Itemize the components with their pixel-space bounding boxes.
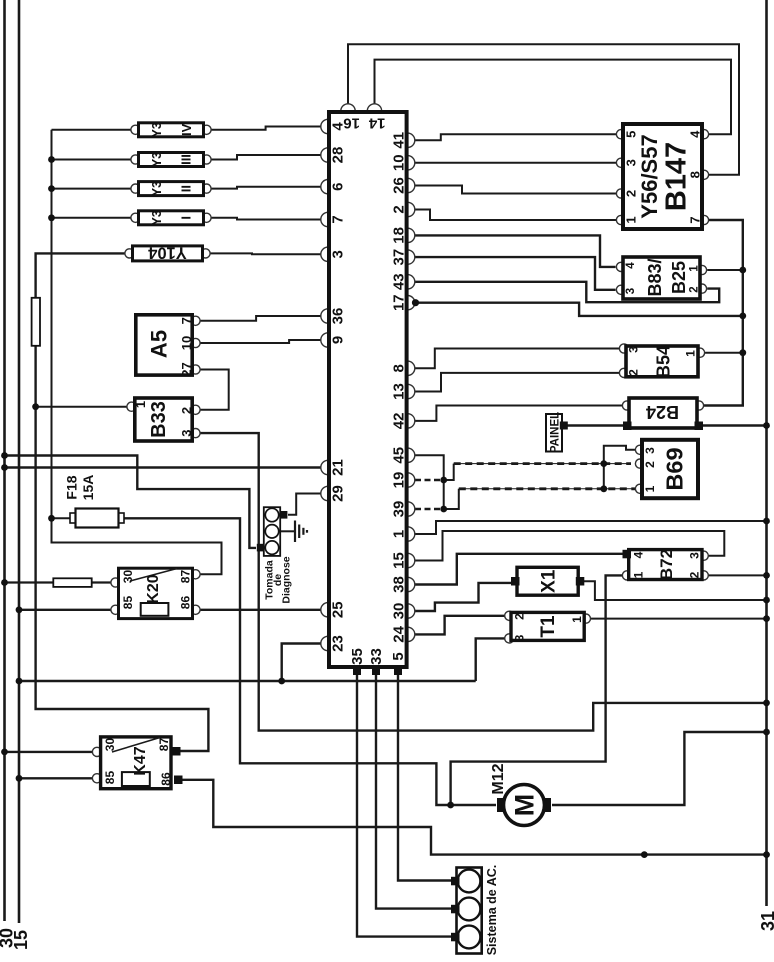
- svg-text:23: 23: [330, 635, 347, 652]
- wire A5 pin7 to pin 36: [200, 316, 321, 321]
- svg-text:87: 87: [179, 570, 193, 584]
- relay K47: [92, 737, 182, 789]
- wire pin 42 to B24 left: [415, 406, 623, 421]
- wire pin 19 dashed stub: [415, 479, 444, 482]
- junction dots node column B147-B54: [739, 267, 746, 274]
- svg-text:38: 38: [391, 576, 408, 593]
- sensor B24: [622, 398, 703, 430]
- sensor B54: [619, 344, 704, 378]
- wire Tomada mid to ground: [281, 530, 294, 532]
- svg-text:III: III: [179, 154, 194, 165]
- svg-text:IV: IV: [179, 123, 194, 136]
- wire Y104 to pin 3: [206, 252, 321, 255]
- svg-text:4: 4: [688, 130, 703, 138]
- svg-text:II: II: [179, 185, 194, 192]
- wire pin 10 to B147 pin3: [415, 162, 617, 164]
- wire B54 pin1 to node: [705, 352, 743, 354]
- wire rail30 to Tomada bottom: [5, 456, 257, 548]
- wire B33 pin3 to rail 31: [200, 433, 766, 730]
- valve Y104: [125, 244, 210, 262]
- svg-text:I: I: [179, 216, 194, 220]
- wire pin 30 to X1: [415, 583, 511, 611]
- svg-text:3: 3: [179, 429, 194, 436]
- svg-text:10: 10: [179, 336, 194, 350]
- wire bus to K20 pin87: [52, 130, 222, 575]
- svg-text:B69: B69: [662, 447, 688, 490]
- svg-text:85: 85: [121, 596, 135, 610]
- wire pin 35 to AC connector: [357, 675, 451, 937]
- relay K20: [111, 568, 200, 618]
- svg-text:3: 3: [513, 634, 527, 641]
- junction dot pin 23 net: [278, 678, 285, 685]
- sensor B69: [635, 440, 698, 498]
- svg-text:1: 1: [689, 265, 701, 272]
- svg-text:2: 2: [689, 286, 701, 292]
- motor M12: [490, 763, 551, 825]
- svg-text:39: 39: [391, 501, 408, 518]
- connector Sistema de AC: [451, 865, 499, 956]
- svg-text:29: 29: [330, 485, 347, 502]
- svg-text:X1: X1: [539, 569, 560, 593]
- valve Y3 II: [131, 181, 211, 196]
- svg-text:2: 2: [391, 205, 408, 213]
- svg-text:27: 27: [179, 362, 194, 376]
- wire T1 pin1 to rail 31: [590, 618, 766, 620]
- connector X1: [511, 567, 584, 595]
- wire Y3-II left: [52, 188, 136, 190]
- svg-text:19: 19: [391, 472, 408, 489]
- svg-text:30: 30: [121, 570, 135, 584]
- svg-text:18: 18: [391, 227, 408, 244]
- svg-text:2: 2: [513, 613, 527, 620]
- svg-text:30: 30: [103, 738, 117, 752]
- svg-text:6: 6: [330, 183, 347, 191]
- svg-text:30: 30: [391, 603, 408, 620]
- wire rail30 to K20 pin30 via resistor: [5, 581, 112, 583]
- sensor B83/B25: [616, 257, 706, 299]
- svg-text:10: 10: [391, 154, 408, 171]
- svg-text:24: 24: [391, 625, 408, 642]
- svg-text:K20: K20: [145, 574, 162, 603]
- wire PAINEL to B24: [568, 424, 624, 427]
- svg-text:K47: K47: [132, 746, 149, 775]
- label PAINEL: [546, 412, 568, 453]
- svg-text:45: 45: [391, 447, 408, 464]
- svg-text:43: 43: [391, 273, 408, 290]
- inline fuse on Y104 branch: [32, 298, 40, 346]
- svg-text:T1: T1: [538, 615, 559, 638]
- wire pin 41 to B147 pin5: [415, 134, 617, 140]
- svg-text:87: 87: [157, 738, 171, 752]
- svg-text:17: 17: [391, 294, 408, 311]
- wire pin 37 to B83 pin3: [415, 257, 616, 290]
- wire pin 33 to AC connector: [376, 675, 451, 909]
- junction dot node B33 pin1: [32, 403, 39, 410]
- svg-text:33: 33: [368, 648, 385, 665]
- svg-text:13: 13: [391, 383, 408, 400]
- wire pin 23 down: [282, 644, 321, 682]
- wire pin 39 dashed stub: [415, 508, 444, 511]
- svg-text:B24: B24: [646, 402, 679, 422]
- wire node jog to dashed line 1: [444, 464, 454, 480]
- svg-text:1: 1: [632, 571, 646, 578]
- svg-text:PAINEL: PAINEL: [550, 412, 562, 453]
- wire F18 to M12 left: [124, 518, 496, 805]
- wire pin 5 to AC connector: [398, 675, 451, 881]
- inline resistor on K20 feed: [53, 578, 91, 587]
- wire rail30 to K47 pin30: [5, 751, 93, 753]
- svg-text:37: 37: [391, 249, 408, 266]
- svg-text:7: 7: [179, 317, 194, 324]
- svg-text:42: 42: [391, 413, 408, 430]
- svg-text:B54: B54: [654, 345, 674, 378]
- svg-text:Sistema de AC.: Sistema de AC.: [485, 865, 499, 956]
- wire bus to fuse F18: [52, 517, 74, 519]
- svg-text:Y56/S57: Y56/S57: [637, 134, 662, 218]
- svg-text:36: 36: [330, 308, 347, 325]
- wire rail15 to K20 pin85: [19, 609, 111, 611]
- svg-text:3: 3: [330, 250, 347, 258]
- svg-text:B25: B25: [669, 261, 689, 294]
- wire Y3-IV to pin 4: [207, 127, 321, 130]
- svg-text:M: M: [510, 794, 540, 817]
- svg-text:1: 1: [133, 401, 148, 408]
- svg-text:26: 26: [391, 177, 408, 194]
- relay unit Y56/S57 B147: [616, 124, 708, 229]
- svg-text:86: 86: [159, 772, 173, 786]
- wire pin 43 to B25 pin2: [415, 282, 719, 302]
- control module A5: [136, 315, 200, 377]
- wire K47 pin86 to rail 31: [183, 780, 767, 855]
- wire pin 26 to B147 pin2: [415, 186, 617, 194]
- junction dots rail 30: [1, 452, 8, 459]
- svg-text:2: 2: [643, 461, 657, 468]
- svg-text:41: 41: [391, 132, 408, 149]
- ground symbol: [295, 521, 307, 543]
- wire B33 pin1 to node: [36, 406, 127, 408]
- wire Tomada top to pin 29: [288, 494, 321, 515]
- wire pin 1 to rail 31: [415, 521, 767, 534]
- wire B147 pin7 to B24 right: [704, 220, 743, 406]
- wire pin 45 down: [415, 455, 444, 509]
- ECU control unit box: [321, 104, 415, 675]
- svg-text:31: 31: [758, 911, 774, 931]
- svg-text:1: 1: [570, 616, 584, 623]
- wire rail 15: [18, 0, 21, 923]
- diagnostic socket Tomada de Diagnose: [257, 507, 293, 603]
- valve Y3 IV: [131, 122, 211, 137]
- svg-text:4: 4: [632, 551, 646, 558]
- svg-text:Y3: Y3: [150, 210, 164, 225]
- wire pin 38 to B72 pin4: [415, 554, 623, 585]
- svg-text:F18: F18: [64, 475, 80, 499]
- wire pin 2 to B147 pin1: [415, 210, 617, 221]
- fuse F18 15A: [64, 475, 125, 528]
- wire rail30 to pin 21: [5, 466, 321, 468]
- wire Y104 left via inline fuse to K47 pin87: [36, 253, 209, 751]
- svg-text:Y104: Y104: [147, 244, 186, 262]
- svg-text:15A: 15A: [80, 475, 96, 501]
- svg-text:5: 5: [390, 652, 407, 660]
- svg-text:1: 1: [643, 485, 657, 492]
- svg-text:2: 2: [688, 571, 702, 578]
- wire pin 8 to B54 pin3: [415, 349, 620, 369]
- svg-text:3: 3: [643, 447, 657, 454]
- svg-text:28: 28: [330, 147, 347, 164]
- wire rail15 ground run: [19, 680, 476, 682]
- wire A5 pin10 to pin 9: [200, 340, 321, 343]
- wire dashed line to B69 pin1: [459, 488, 636, 490]
- wire pin 15 to B72 pin3: [415, 531, 724, 561]
- svg-text:25: 25: [330, 601, 347, 618]
- svg-text:85: 85: [103, 771, 117, 785]
- wire B72 pin1 to M12 node: [451, 575, 623, 805]
- svg-text:B83/: B83/: [645, 258, 665, 296]
- svg-text:B33: B33: [148, 401, 170, 438]
- wire rail 31: [765, 0, 768, 906]
- svg-text:Y3: Y3: [150, 181, 164, 196]
- junction dots Y3 bus: [48, 156, 55, 163]
- valve Y3 III: [131, 152, 211, 167]
- wire pin 16 to B147 pin8: [348, 44, 739, 175]
- svg-text:7: 7: [330, 215, 347, 223]
- svg-text:7: 7: [688, 216, 703, 223]
- svg-text:1: 1: [684, 350, 698, 357]
- wire T1 pin3: [476, 638, 505, 681]
- wire M12 right to rail 31: [552, 732, 767, 805]
- svg-text:2: 2: [627, 369, 641, 376]
- svg-text:Diagnose: Diagnose: [281, 556, 293, 603]
- wire Y3-I to pin 7: [207, 218, 321, 220]
- wire Y3-III to pin 28: [207, 155, 321, 160]
- wire X1 right to rail 31: [584, 581, 767, 600]
- wire link to B69 pin3: [604, 446, 636, 489]
- junction dot M12 feed: [447, 802, 454, 809]
- svg-text:3: 3: [688, 552, 702, 559]
- svg-text:15: 15: [11, 930, 31, 950]
- wire node jog to dashed line 2: [444, 489, 459, 509]
- wire pin 13 to B54 pin2: [415, 373, 620, 392]
- svg-text:B147: B147: [661, 142, 693, 211]
- wire Y3-III left: [52, 159, 136, 161]
- wire pin 14 to B147 pin4: [375, 60, 732, 135]
- junction dots dashed net: [440, 477, 447, 484]
- svg-text:M12: M12: [490, 763, 507, 794]
- wire pin 17 to node: [415, 303, 743, 316]
- connector B72: [622, 549, 708, 580]
- wire B24 to rail 31: [703, 424, 767, 427]
- svg-text:21: 21: [330, 459, 347, 476]
- svg-text:3: 3: [625, 288, 637, 294]
- svg-text:B72: B72: [657, 549, 676, 580]
- wire pin 18 to B83 pin4: [415, 235, 616, 267]
- svg-text:35: 35: [349, 648, 366, 665]
- svg-text:4: 4: [625, 262, 637, 269]
- wire pin 24 to T1 pin2: [415, 616, 505, 635]
- wire K20 pin86 to pin 25: [200, 609, 321, 611]
- svg-text:9: 9: [330, 336, 347, 344]
- sensor B33: [127, 398, 200, 441]
- svg-text:8: 8: [391, 364, 408, 372]
- wire B72 pin2 to rail 31: [708, 574, 766, 576]
- wire A5 pin27 to B33 pin2: [200, 370, 229, 410]
- wire rail15 to K47 pin85: [19, 777, 93, 779]
- junction dot ground run: [641, 851, 648, 858]
- svg-text:3: 3: [627, 346, 641, 353]
- wire dashed line to B69 pin2: [454, 463, 631, 465]
- junction dot pin 17: [412, 299, 419, 306]
- svg-text:1: 1: [391, 530, 408, 538]
- wire B25 pin1 to node: [707, 269, 743, 271]
- wire Y3-I left: [52, 217, 136, 219]
- wire Y3-II to pin 6: [207, 187, 321, 189]
- svg-text:14: 14: [368, 115, 385, 132]
- svg-text:15: 15: [391, 552, 408, 569]
- junction dots rail 31: [763, 422, 770, 429]
- svg-text:2: 2: [179, 407, 194, 414]
- svg-text:Y3: Y3: [150, 152, 164, 167]
- svg-text:Y3: Y3: [150, 122, 164, 137]
- svg-text:16: 16: [343, 115, 360, 132]
- transformer T1: [505, 611, 591, 643]
- junction dots rail 15: [16, 606, 23, 613]
- valve Y3 I: [131, 210, 211, 225]
- svg-text:A5: A5: [147, 330, 172, 358]
- wire Y3-IV left to bus: [52, 129, 136, 131]
- wire rail 30: [3, 0, 6, 921]
- svg-text:86: 86: [179, 596, 193, 610]
